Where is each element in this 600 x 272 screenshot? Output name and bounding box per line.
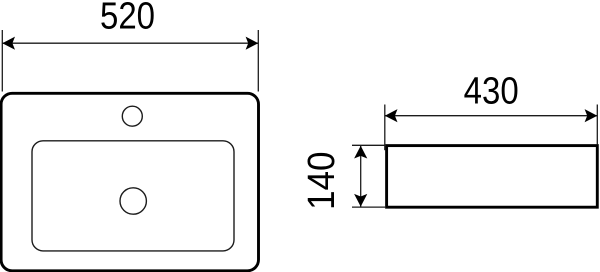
svg-text:430: 430: [464, 69, 519, 112]
svg-text:140: 140: [300, 152, 343, 210]
svg-text:520: 520: [100, 0, 155, 37]
